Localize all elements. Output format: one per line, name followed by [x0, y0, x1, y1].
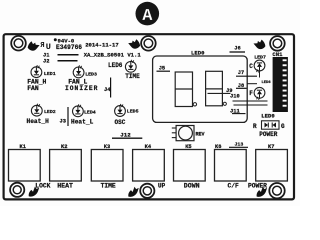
svg-text:POWER: POWER	[259, 131, 277, 138]
svg-text:C: C	[249, 63, 253, 70]
svg-text:DOWN: DOWN	[184, 182, 200, 189]
svg-text:C/F: C/F	[228, 182, 240, 189]
svg-text:J1: J1	[43, 52, 49, 58]
svg-text:XA_X2B_S0501 V1.1: XA_X2B_S0501 V1.1	[84, 51, 142, 58]
svg-text:TIME: TIME	[101, 182, 116, 189]
mounting hole top-right	[270, 36, 285, 51]
svg-text:J7: J7	[238, 70, 244, 76]
LED4	[73, 104, 84, 116]
svg-text:LED9: LED9	[261, 113, 275, 120]
circled A callout	[136, 2, 160, 26]
svg-text:R: R	[253, 123, 257, 130]
board outline	[4, 34, 294, 199]
svg-text:LOCK: LOCK	[35, 182, 50, 189]
LED3	[73, 65, 84, 77]
LED2	[31, 104, 42, 116]
svg-text:2014-11-17: 2014-11-17	[85, 41, 119, 48]
svg-text:LED1: LED1	[44, 71, 56, 77]
flammability rating 94V-0	[54, 38, 57, 41]
svg-text:POWER: POWER	[248, 182, 267, 189]
svg-text:FAN: FAN	[27, 85, 39, 92]
svg-text:J2: J2	[43, 58, 49, 64]
arrow marker top-left	[28, 41, 40, 51]
svg-text:LED7: LED7	[254, 54, 266, 60]
svg-text:IONIZER: IONIZER	[65, 85, 98, 92]
svg-text:F: F	[249, 90, 253, 97]
svg-text:LED0: LED0	[191, 50, 205, 57]
svg-text:LED2: LED2	[44, 109, 56, 115]
svg-text:E349766: E349766	[56, 44, 82, 51]
svg-text:U: U	[46, 42, 51, 52]
wire from LED7 cathode	[259, 71, 261, 77]
svg-text:Heat_L: Heat_L	[71, 119, 94, 126]
svg-text:J3: J3	[60, 119, 66, 125]
mounting hole bottom-right	[269, 183, 284, 198]
svg-text:HEAT: HEAT	[57, 182, 73, 189]
svg-text:Я: Я	[40, 42, 44, 50]
svg-text:LED5: LED5	[127, 109, 139, 115]
mounting hole top-center	[141, 36, 156, 51]
arrow marker top-right	[254, 40, 266, 50]
svg-text:OSC: OSC	[115, 119, 126, 126]
svg-text:TIME: TIME	[125, 73, 140, 80]
svg-text:J6: J6	[234, 46, 240, 52]
mounting hole top-left	[11, 36, 26, 51]
svg-text:LED6: LED6	[108, 62, 123, 69]
mounting hole bottom-center	[140, 184, 154, 198]
svg-text:LED3: LED3	[85, 72, 97, 78]
svg-text:REV: REV	[196, 132, 205, 138]
digit 1	[175, 72, 196, 107]
mounting hole bottom-left	[10, 183, 24, 197]
arrow marker bottom-center	[128, 187, 138, 197]
svg-text:UP: UP	[158, 182, 166, 189]
svg-text:LED8: LED8	[262, 81, 272, 85]
arrow marker top-center	[128, 39, 140, 49]
LED5	[115, 104, 126, 116]
arrow marker bottom-left	[29, 187, 39, 197]
svg-text:LED4: LED4	[84, 109, 96, 115]
svg-text:G: G	[281, 123, 285, 130]
digit 2	[206, 71, 227, 106]
svg-text:Heat_H: Heat_H	[27, 118, 50, 125]
arrow marker bottom-right	[257, 187, 267, 197]
svg-text:J10: J10	[230, 94, 240, 100]
IR receiver REV	[172, 126, 205, 141]
7-segment display module outline	[153, 56, 248, 122]
svg-text:A: A	[142, 7, 153, 26]
LED1	[31, 65, 42, 77]
